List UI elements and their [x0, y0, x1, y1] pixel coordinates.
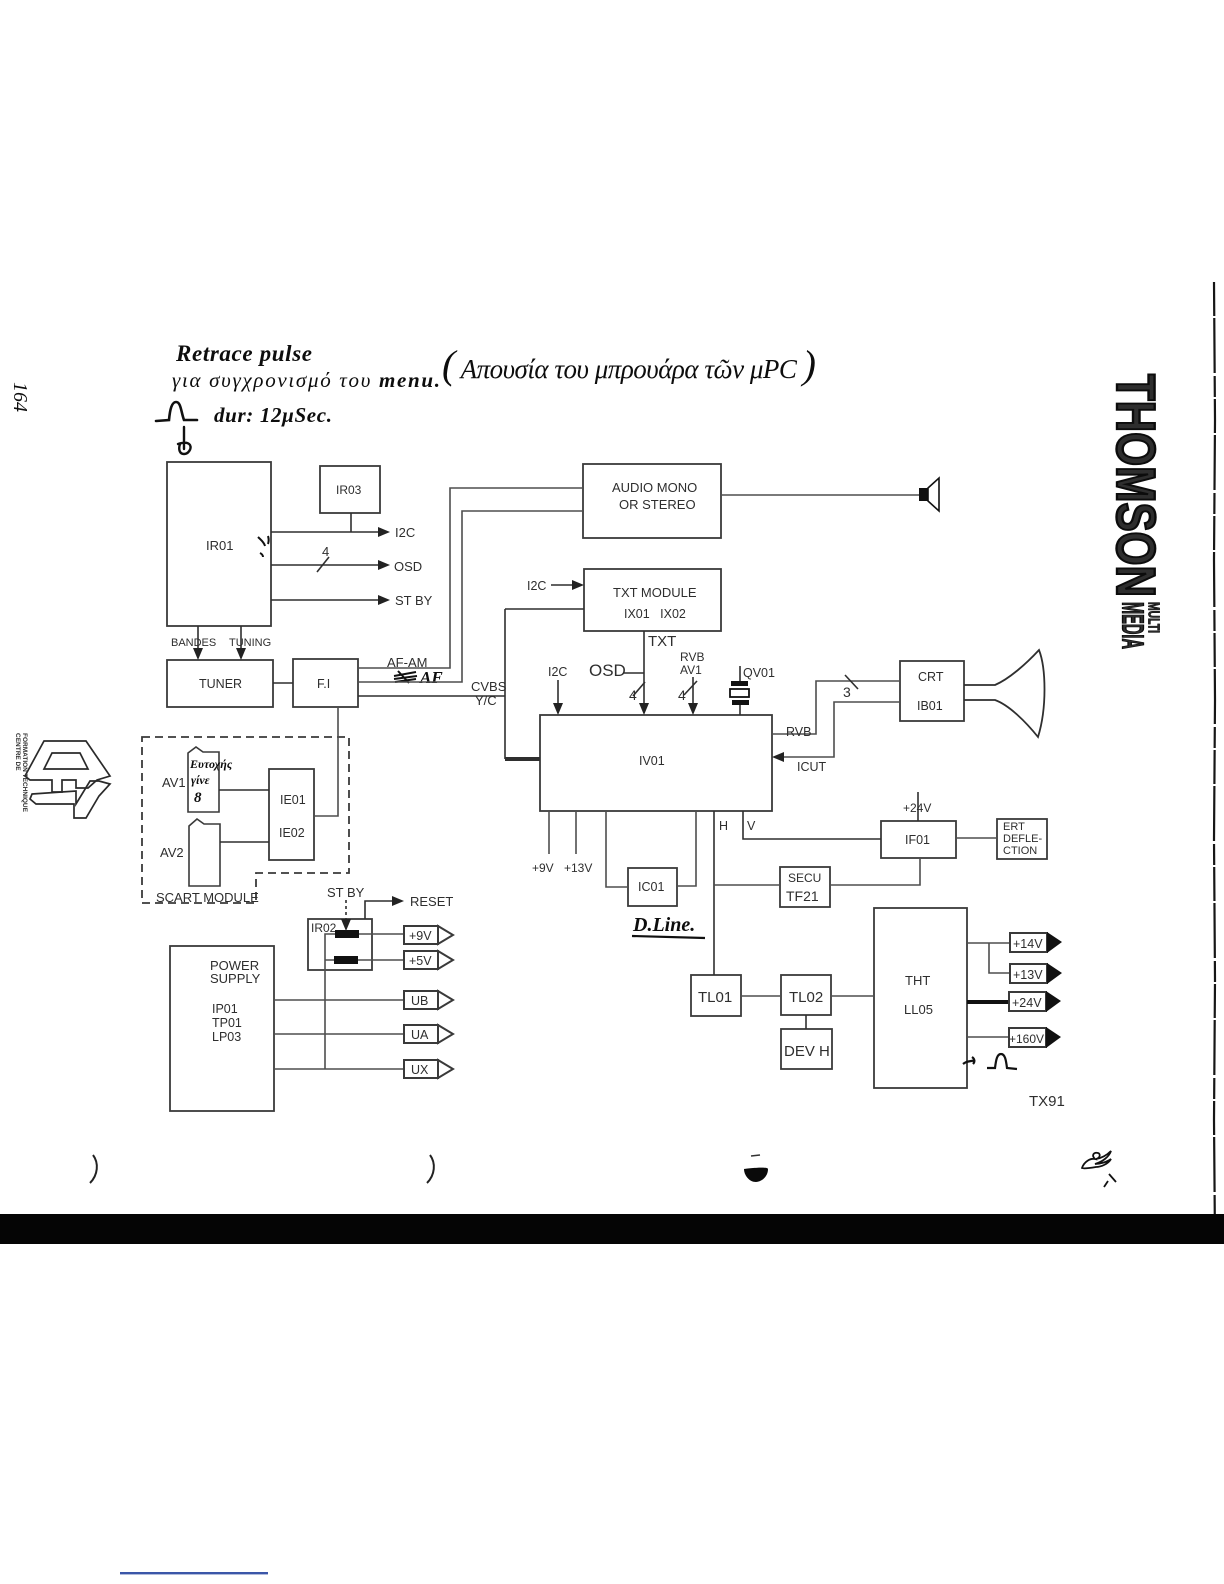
svg-text:RVB: RVB — [680, 650, 704, 664]
svg-text:IR03: IR03 — [336, 483, 362, 497]
wire IV01 to IC01 left — [606, 811, 628, 887]
svg-text:+24V: +24V — [1012, 996, 1042, 1010]
svg-text:+13V: +13V — [564, 861, 592, 875]
svg-text:D.Line.: D.Line. — [632, 914, 695, 936]
wire H junction to SECU — [714, 884, 780, 886]
svg-text:MEDIA: MEDIA — [1116, 602, 1151, 649]
flag UX — [404, 1060, 438, 1078]
dashed wire ST BY into IR02 — [345, 900, 347, 919]
svg-text:AF: AF — [419, 668, 443, 687]
svg-text:+24V: +24V — [903, 801, 931, 815]
scan mark paren mid — [427, 1155, 434, 1183]
wire IR01 TUNING arrow to TUNER — [240, 626, 242, 648]
svg-text:TL01: TL01 — [698, 989, 732, 1006]
block ERT DEFLECTION — [997, 819, 1047, 859]
svg-text:TL02: TL02 — [789, 989, 823, 1006]
block DEV H — [781, 1029, 832, 1069]
svg-text:+13V: +13V — [1013, 968, 1043, 982]
wire TXT to IV01 — [643, 631, 645, 703]
svg-text:Y/C: Y/C — [475, 693, 497, 708]
svg-text:UA: UA — [411, 1028, 429, 1042]
svg-text:CTION: CTION — [1003, 845, 1037, 857]
wire TUNER to F.I — [273, 682, 293, 684]
wire IR02 to RESET — [365, 901, 392, 919]
svg-text:QV01: QV01 — [743, 666, 775, 680]
wire IR01 BANDES arrow to TUNER — [197, 626, 199, 648]
handwritten pulse at THT — [963, 1054, 1017, 1069]
wire IR01 to I2C — [271, 531, 378, 533]
wire TL01 to TL02 — [741, 995, 781, 997]
svg-text:ST BY: ST BY — [395, 593, 433, 608]
svg-text:ST BY: ST BY — [327, 885, 365, 900]
svg-text:CRT: CRT — [918, 670, 944, 684]
wire IR02 internal drop to UX line — [325, 934, 335, 1069]
resonator QV01 — [739, 666, 741, 681]
svg-text:TF21: TF21 — [786, 888, 819, 904]
wire F.I AF-AM to audio — [358, 488, 583, 668]
svg-text:AV1: AV1 — [162, 775, 186, 790]
bus slash 4 on OSD — [317, 557, 329, 572]
SCART MODULE dashed outline — [142, 737, 349, 903]
svg-text:SUPPLY: SUPPLY — [210, 971, 261, 986]
svg-text:+9V: +9V — [409, 929, 432, 943]
bus slash 3 — [845, 675, 858, 689]
scan mark paren left — [90, 1155, 97, 1183]
svg-text:4: 4 — [678, 687, 686, 703]
svg-text:RESET: RESET — [410, 894, 453, 909]
bus slash 4 on AV1 stub — [684, 681, 697, 695]
CFT stamp logo — [25, 741, 110, 818]
wire RVB AV1 stub into IV01 — [692, 677, 694, 703]
IR02 fuse top — [335, 930, 359, 938]
wire PS to UB flag — [274, 999, 404, 1001]
wire IF01 to ERT — [956, 837, 997, 839]
wire audio out to speaker — [721, 494, 919, 496]
scart connector AV2 — [189, 819, 220, 886]
svg-text:CVBS: CVBS — [471, 679, 507, 694]
svg-text:DEFLE-: DEFLE- — [1003, 833, 1042, 845]
wire THT to +14V and +13V flags — [967, 943, 1010, 973]
svg-text:OR STEREO: OR STEREO — [619, 497, 696, 512]
svg-text:+5V: +5V — [409, 954, 432, 968]
wire THT to +160V flag — [967, 1036, 1009, 1038]
svg-text:3: 3 — [843, 684, 851, 700]
svg-text:γίνε: γίνε — [191, 773, 210, 787]
svg-text:LL05: LL05 — [904, 1002, 933, 1017]
svg-text:SECU: SECU — [788, 871, 821, 885]
svg-text:I2C: I2C — [395, 525, 415, 540]
svg-text:I2C: I2C — [548, 665, 567, 679]
svg-text:THOMSON: THOMSON — [1105, 374, 1167, 597]
wire IR02 fuse2 to +5V flag — [358, 959, 404, 961]
svg-text:OSD: OSD — [394, 559, 422, 574]
svg-text:TUNING: TUNING — [229, 637, 271, 649]
black separator bar — [0, 1214, 1211, 1244]
svg-text:164: 164 — [9, 382, 31, 412]
svg-text:dur: 12μSec.: dur: 12μSec. — [214, 403, 332, 427]
arrowhead ST BY — [378, 595, 390, 605]
svg-text:UB: UB — [411, 994, 428, 1008]
handwritten tick near IR01 — [258, 536, 269, 557]
block TL02 — [781, 975, 831, 1015]
wire F.I CVBS to IV01 — [358, 695, 505, 697]
right edge scan line — [1214, 282, 1215, 1243]
svg-text:F.I: F.I — [317, 677, 330, 691]
wire IV01 V line to IF01 — [743, 811, 881, 839]
svg-text:+14V: +14V — [1013, 937, 1043, 951]
flag +9V — [404, 926, 438, 944]
wire +24V stub into IF01 — [917, 792, 919, 821]
wire F.I down to IE01 — [314, 707, 338, 816]
wire IR01 to OSD — [271, 564, 378, 566]
svg-text:+160V: +160V — [1009, 1032, 1044, 1046]
svg-text:8: 8 — [194, 790, 202, 806]
block CRT IB01 — [900, 661, 964, 721]
wire AV1 to IE01 — [219, 789, 269, 791]
svg-text:OSD: OSD — [589, 661, 626, 680]
svg-text:4: 4 — [629, 687, 637, 703]
svg-text:SCART MODULE: SCART MODULE — [156, 890, 259, 905]
wire IR01 to ST BY — [271, 599, 378, 601]
block AUDIO MONO OR STEREO — [583, 464, 721, 538]
flag +5V — [404, 951, 438, 969]
wire IV01 to IC01 right — [677, 811, 696, 886]
flag +24V — [1009, 992, 1046, 1011]
svg-text:IR02: IR02 — [311, 921, 337, 935]
flag +14V — [1010, 933, 1047, 952]
wire F.I AF to audio — [358, 511, 583, 682]
svg-text:LP03: LP03 — [212, 1030, 241, 1044]
blue pen underline bottom left — [120, 1572, 268, 1574]
svg-text:AV1: AV1 — [680, 663, 702, 677]
wire IV01 +9V pin — [548, 811, 550, 854]
wire I2C stub to TXT — [551, 584, 572, 586]
svg-text:IV01: IV01 — [639, 754, 665, 768]
svg-text:IC01: IC01 — [638, 880, 664, 894]
arrowhead OSD — [378, 560, 390, 570]
wire TL02 to THT — [831, 995, 874, 997]
flag +160V — [1009, 1028, 1046, 1047]
wire CRT ICUT to IV01 — [784, 702, 900, 757]
THOMSON logo text — [1105, 374, 1167, 597]
svg-text:Ευτοχής: Ευτοχής — [189, 757, 233, 771]
wire IV01 H line down to TL01 — [713, 811, 715, 975]
scart connector AV1 — [188, 747, 219, 812]
right edge scan strip bottom — [1211, 1214, 1224, 1244]
MULTI MEDIA logo text — [1116, 602, 1162, 649]
wire OSD join to TXT line — [623, 672, 644, 674]
svg-text:I2C: I2C — [527, 579, 546, 593]
svg-text:για συγχρονισμό του menu.: για συγχρονισμό του menu. — [172, 368, 440, 392]
flag UB — [404, 991, 438, 1009]
wire PS to UA flag — [274, 1033, 404, 1035]
svg-text:V: V — [747, 819, 756, 833]
svg-text:BANDES: BANDES — [171, 637, 216, 649]
svg-text:TX91: TX91 — [1029, 1093, 1065, 1110]
svg-text:IB01: IB01 — [917, 699, 943, 713]
wire PS to UX flag — [274, 1068, 404, 1070]
handwritten signature scribble — [1082, 1151, 1116, 1187]
block TUNER — [167, 660, 273, 707]
wire TL02 to DEV H — [805, 1015, 807, 1029]
svg-text:RVB: RVB — [786, 725, 811, 739]
svg-text:UX: UX — [411, 1063, 429, 1077]
flag UA — [404, 1025, 438, 1043]
svg-text:ICUT: ICUT — [797, 760, 827, 774]
CRT funnel — [964, 650, 1045, 737]
block IR01 — [167, 462, 271, 626]
block TL01 — [691, 975, 741, 1016]
svg-text:H: H — [719, 819, 728, 833]
block IF01 — [881, 821, 956, 858]
wire IR02 fuse1 to +9V flag — [359, 933, 404, 935]
svg-text:IP01: IP01 — [212, 1002, 238, 1016]
handwritten arrow to IR01 — [178, 427, 191, 454]
wire CVBS vertical node to TXT and IV01 — [504, 609, 506, 759]
block THT LL05 — [874, 908, 967, 1088]
block IR02 — [308, 919, 372, 970]
block IE01 IE02 — [269, 769, 314, 860]
block IC01 — [628, 868, 677, 906]
svg-text:IE01: IE01 — [280, 793, 306, 807]
arrowhead I2C — [378, 527, 390, 537]
scan blob bowl — [744, 1168, 768, 1182]
wire IV01 RVB out to CRT — [772, 681, 900, 734]
block F.I — [293, 659, 358, 707]
speaker — [919, 488, 928, 501]
svg-text:FORMATION TECHNIQUE: FORMATION TECHNIQUE — [21, 733, 28, 813]
bus slash 4 on TXT line — [633, 682, 645, 696]
flag +13V — [1010, 964, 1047, 983]
svg-text:THT: THT — [905, 973, 930, 988]
svg-text:TXT MODULE: TXT MODULE — [613, 585, 697, 600]
svg-text:ERT: ERT — [1003, 821, 1025, 833]
wire IV01 +13V pin — [575, 811, 577, 854]
svg-text:DEV H: DEV H — [784, 1043, 830, 1060]
block SECU TF21 — [780, 867, 830, 907]
svg-text:IX01 IX02: IX01 IX02 — [624, 607, 686, 621]
svg-text:IR01: IR01 — [206, 538, 233, 553]
wire IR03 drop to I2C line — [350, 513, 352, 532]
svg-text:IF01: IF01 — [905, 833, 930, 847]
wire IF01 down to SECU — [830, 858, 920, 885]
svg-text:AV2: AV2 — [160, 845, 184, 860]
svg-text:TUNER: TUNER — [199, 677, 242, 691]
wire THT to +24V flag — [967, 1000, 1009, 1004]
svg-text:TXT: TXT — [648, 633, 676, 650]
block IR03 — [320, 466, 380, 513]
svg-text:TP01: TP01 — [212, 1016, 242, 1030]
IR02 fuse bottom — [334, 956, 358, 964]
svg-text:Retrace pulse: Retrace pulse — [175, 341, 312, 366]
svg-text:IE02: IE02 — [279, 826, 305, 840]
block IV01 — [540, 715, 772, 811]
svg-text:CENTRE DE: CENTRE DE — [14, 733, 21, 771]
block TXT MODULE — [584, 569, 721, 631]
svg-text:AUDIO MONO: AUDIO MONO — [612, 480, 697, 495]
svg-text:4: 4 — [322, 544, 329, 559]
block POWER SUPPLY — [170, 946, 274, 1111]
handwritten pulse waveform — [156, 402, 197, 421]
wire AV2 to IE02 — [220, 841, 269, 843]
wire I2C stub into IV01 — [557, 680, 559, 703]
svg-text:+9V: +9V — [532, 861, 554, 875]
